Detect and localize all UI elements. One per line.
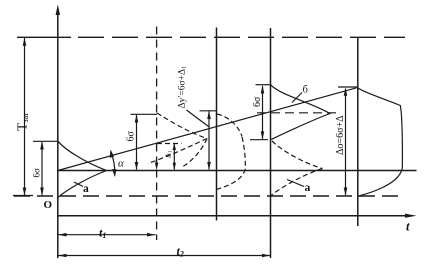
y-axis xyxy=(57,13,59,258)
6sigma1 arrow up xyxy=(40,141,44,149)
dashed bell curve at t2 (right side) xyxy=(242,137,245,169)
6sigma dimension (t1 curve) line xyxy=(136,115,138,170)
leader from delta-u' label xyxy=(187,110,209,127)
dimension delta-o line xyxy=(345,89,347,196)
trend line xyxy=(58,88,357,171)
dashed vertical line t1 xyxy=(156,27,158,241)
t2 dimension line xyxy=(58,255,271,257)
6sigma2 arrow up xyxy=(135,114,139,122)
tick top of t1 curve xyxy=(131,113,158,115)
6sigma dimension (curve b) line xyxy=(262,86,264,139)
delta-u' arrow up xyxy=(207,111,211,119)
small down arrow on dashed t1 line at mid level xyxy=(155,163,159,171)
svg-text:Тзаг: Тзаг xyxy=(15,112,31,131)
tick at curve-b lower bound xyxy=(250,139,268,141)
dimension delta-u' line xyxy=(208,112,210,170)
svg-text:6σ: 6σ xyxy=(126,131,137,142)
6sigma3 arrow down xyxy=(261,131,265,139)
vertical line t2 xyxy=(216,28,218,221)
tick top at t2 curve xyxy=(200,110,217,112)
svg-text:t: t xyxy=(406,220,410,234)
tick top of curve b xyxy=(256,84,271,86)
delta-o arrow up xyxy=(344,88,348,96)
svg-text:α: α xyxy=(118,158,124,170)
arc arrowhead top xyxy=(110,150,114,159)
dashed curve a-copy at t2' (upper) xyxy=(272,141,323,169)
dashed bell curve at t1 (lower sweep) xyxy=(148,139,207,164)
svg-text:6σ: 6σ xyxy=(252,96,263,107)
6sigma dimension (first curve) line xyxy=(41,142,43,195)
svg-text:a: a xyxy=(83,183,89,195)
mid horizontal line (initial setting level) xyxy=(58,170,417,172)
tick top of first curve xyxy=(33,140,58,142)
Tzag dimension line xyxy=(24,38,26,195)
6sigma1 arrow down xyxy=(40,188,44,196)
top dashed reference line Tzag upper xyxy=(17,36,71,38)
svg-text:Δо=6σ+Δ: Δо=6σ+Δ xyxy=(335,115,346,155)
dashed curve a-copy at t2' (lower) xyxy=(271,169,323,196)
svg-text:t1: t1 xyxy=(99,226,106,241)
tick bottom left (Tzag bottom) xyxy=(13,195,33,197)
vertical line (third) xyxy=(270,28,272,258)
leader for label a2 xyxy=(287,180,304,187)
Tzag arrow up xyxy=(23,38,27,46)
svg-text:a: a xyxy=(305,182,311,194)
dashed bell curve at t2 (upper) xyxy=(217,114,242,137)
delta-u' arrow down xyxy=(207,162,211,170)
delta1 arrow down xyxy=(173,163,176,170)
svg-text:б: б xyxy=(303,85,308,96)
t1 dimension line xyxy=(58,234,156,236)
leader for label b xyxy=(292,93,302,103)
tick top right xyxy=(338,86,358,88)
dashed bell curve at t1 (right side) xyxy=(183,139,207,167)
svg-text:Δ1: Δ1 xyxy=(164,150,174,158)
dashed bell curve at t2 (lower sweep) xyxy=(217,169,246,189)
angle arc alpha xyxy=(111,152,115,176)
t1 arrow right xyxy=(147,233,155,237)
x-axis arrowhead xyxy=(405,214,417,218)
svg-text:Δу′=6σ+Δ1: Δу′=6σ+Δ1 xyxy=(178,66,188,109)
6sigma3 arrow up xyxy=(261,85,265,93)
delta-o arrow down xyxy=(344,188,348,196)
t1 arrow left xyxy=(58,233,66,237)
y-axis arrowhead xyxy=(56,5,60,16)
bottom dashed reference line xyxy=(14,195,402,197)
solid bell curve b at t2' xyxy=(271,85,331,140)
vertical line (right, total curve axis) xyxy=(357,37,359,226)
x-axis xyxy=(58,215,408,217)
dashed line at curve-b peak level xyxy=(257,112,338,114)
svg-text:t2: t2 xyxy=(177,244,184,259)
dashed reference line delta1 level xyxy=(157,143,182,145)
leader for label a xyxy=(74,182,83,187)
t2 arrow left xyxy=(58,254,66,258)
svg-text:O: O xyxy=(44,199,53,211)
Tzag arrow down xyxy=(23,188,27,196)
distribution curve a (solid, at t=0) xyxy=(58,141,107,197)
delta1 arrow up xyxy=(173,143,176,150)
arc arrowhead bottom xyxy=(112,169,116,177)
composite total distribution curve (right) xyxy=(358,88,403,196)
svg-text:6σ: 6σ xyxy=(32,168,42,178)
6sigma2 arrow down xyxy=(135,162,139,170)
dashed bell curve at t1 (upper branch) xyxy=(157,113,207,139)
t2 arrow right xyxy=(262,254,270,258)
dimension delta1 line xyxy=(173,144,175,170)
